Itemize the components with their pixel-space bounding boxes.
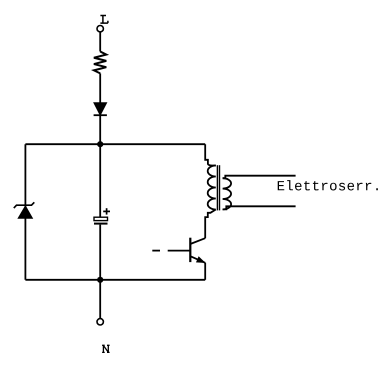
terminal L — [97, 26, 103, 32]
wire bottom rail — [25, 279, 205, 281]
wire secondary top lead — [223, 176, 296, 179]
wire from primary winding to transistor collector — [205, 210, 216, 239]
wire left rail — [24, 144, 26, 280]
terminal N — [97, 319, 103, 325]
capacitor (polarized) — [94, 208, 110, 223]
wire top rail — [25, 143, 205, 145]
transistor (NPN) — [190, 238, 205, 263]
transformer core — [217, 165, 219, 210]
label Elettroserr. — [278, 180, 378, 190]
wire from capacitor to bottom rail — [99, 225, 101, 280]
wire from terminal L to resistor — [99, 32, 101, 51]
wire from resistor to diode — [99, 73, 101, 103]
wire from bottom rail to terminal N — [99, 280, 101, 319]
resistor — [94, 52, 106, 74]
junction dot bottom — [97, 277, 103, 283]
diode — [94, 103, 107, 116]
wire transistor base dashed lead — [152, 250, 190, 252]
node L label — [100, 16, 108, 24]
wire from top rail to transformer primary — [205, 144, 216, 165]
node N label — [102, 345, 110, 352]
wire from diode to top rail — [99, 115, 101, 144]
wire from top junction to capacitor — [99, 144, 101, 217]
junction dot top — [97, 141, 103, 147]
wire transistor emitter to bottom rail — [204, 263, 206, 280]
zener diode — [14, 202, 35, 218]
transformer secondary winding — [223, 178, 232, 209]
wire secondary bottom lead — [223, 206, 296, 209]
transformer primary winding — [208, 166, 216, 210]
